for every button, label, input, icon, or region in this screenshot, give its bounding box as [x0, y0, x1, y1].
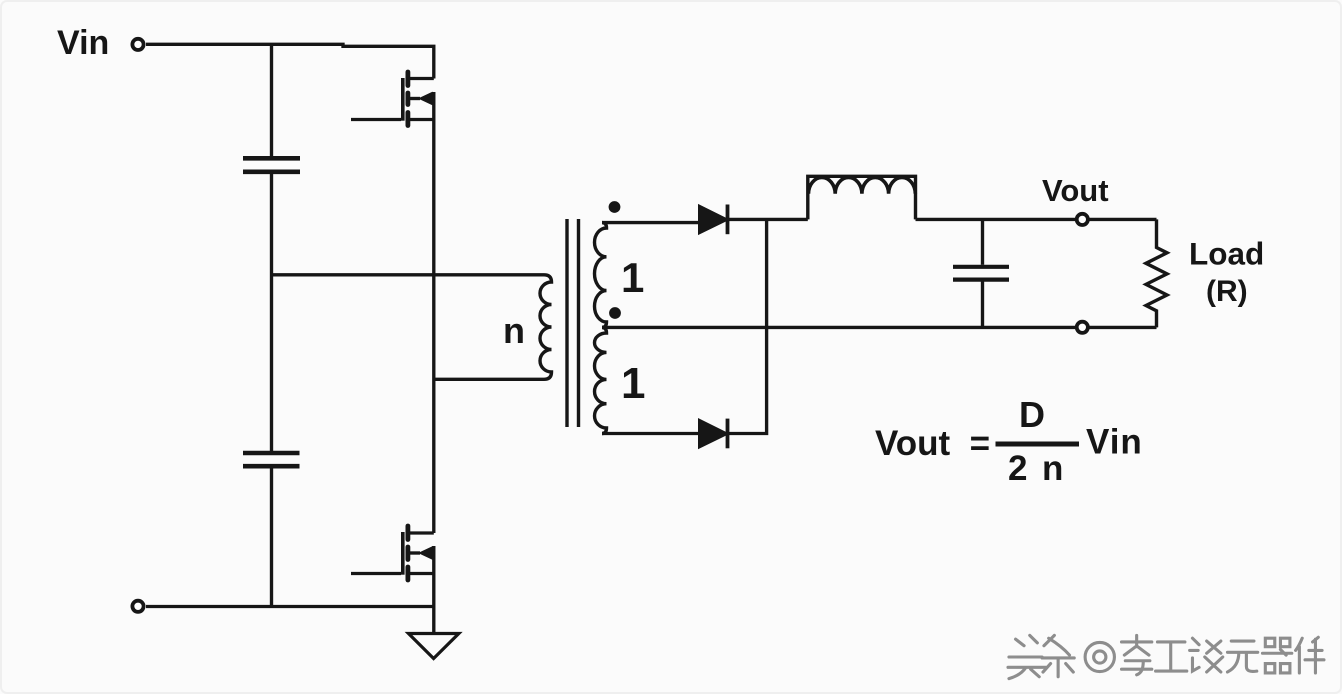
- transistor Q1 high-side MOSFET: [351, 72, 434, 126]
- char 谈: [1190, 638, 1223, 672]
- capacitor C2 (input divider bottom): [243, 453, 300, 466]
- char @: [1085, 642, 1114, 671]
- diode D1: [699, 206, 728, 234]
- wire Q2 source to ground: [432, 546, 435, 633]
- watermark 头条 @李工谈元器件: [1008, 635, 1324, 678]
- node Vin+ terminal: [132, 39, 143, 50]
- wire input cap branch top: [270, 43, 273, 156]
- Q2 gate bar: [401, 532, 405, 575]
- svg-text:1: 1: [621, 254, 644, 301]
- svg-text:1: 1: [621, 359, 645, 408]
- node Vout- terminal: [1077, 322, 1088, 333]
- char 条: [1042, 635, 1074, 676]
- Q2 source lead: [408, 572, 434, 575]
- char 李: [1122, 635, 1152, 674]
- svg-text:Vin: Vin: [57, 24, 109, 62]
- wire C2 to bottom rail: [270, 468, 273, 608]
- inductor secondary winding 1: [595, 223, 607, 328]
- node secondary dot top: [609, 201, 621, 213]
- wire center tap rail (secondary to load bottom): [602, 326, 1157, 329]
- svg-text:Vout: Vout: [1042, 173, 1109, 208]
- Q2 gate lead: [351, 572, 401, 575]
- wire bottom rail: [146, 605, 434, 608]
- wire primary top (cap midpoint to primary): [272, 273, 545, 276]
- Q1 source lead: [408, 118, 434, 121]
- Q2 channel dashes: [405, 526, 410, 580]
- wire primary bottom (bridge midpoint to primary): [434, 378, 544, 381]
- Q2 drain lead: [408, 531, 434, 534]
- wire secondary bottom to D2: [602, 432, 698, 435]
- char 件: [1296, 637, 1324, 673]
- node Vin- terminal: [132, 601, 143, 612]
- wire half-bridge midpoint vertical: [432, 92, 435, 533]
- transformer core: [565, 219, 568, 427]
- char 头: [1008, 635, 1046, 678]
- node secondary dot middle: [609, 307, 621, 319]
- ground: [409, 634, 459, 659]
- svg-text:n: n: [503, 310, 525, 351]
- wire inductor to Vout: [916, 218, 1157, 221]
- char 器: [1262, 638, 1291, 673]
- Q1 body lead: [408, 97, 420, 100]
- Q1 body arrow: [418, 92, 433, 106]
- Q1 gate lead: [351, 118, 401, 121]
- node Vout+ terminal: [1077, 214, 1088, 225]
- svg-text:D: D: [1019, 394, 1045, 435]
- formula fraction bar: [996, 442, 1080, 447]
- svg-text:n: n: [1042, 449, 1063, 488]
- capacitor C3 output: [981, 219, 984, 264]
- svg-text:(R): (R): [1206, 275, 1248, 308]
- inductor L1 humps: [809, 177, 916, 193]
- wire top rail from Vin to Q1 drain: [146, 44, 434, 78]
- capacitor C1 (input divider top): [243, 158, 300, 172]
- transistor Q2 low-side MOSFET: [351, 526, 434, 580]
- resistor load R: [1146, 219, 1167, 327]
- inductor primary winding: [540, 275, 552, 380]
- wire D1 cathode to inductor: [728, 218, 808, 221]
- wire between C1 and C2: [270, 174, 273, 451]
- svg-text:Load: Load: [1189, 236, 1264, 272]
- svg-text:Vin: Vin: [1086, 423, 1143, 462]
- formula Vout = D/(2n) Vin: [875, 394, 1143, 488]
- Q2 body lead: [408, 551, 420, 554]
- Q2 body arrow: [418, 546, 433, 560]
- Q1 channel dashes: [405, 72, 410, 126]
- inductor secondary winding 2: [595, 327, 607, 433]
- char 工: [1156, 642, 1187, 671]
- char 元: [1227, 641, 1257, 672]
- wire secondary top to D1: [602, 221, 698, 224]
- Q1 drain lead: [408, 77, 434, 80]
- wire D2 cathode up to D1 cathode: [729, 219, 767, 433]
- svg-text:2: 2: [1008, 449, 1027, 488]
- diode D2: [699, 420, 728, 448]
- svg-text:Vout =: Vout =: [875, 424, 990, 463]
- inductor L1 frame: [808, 176, 916, 219]
- Q1 gate bar: [401, 78, 405, 121]
